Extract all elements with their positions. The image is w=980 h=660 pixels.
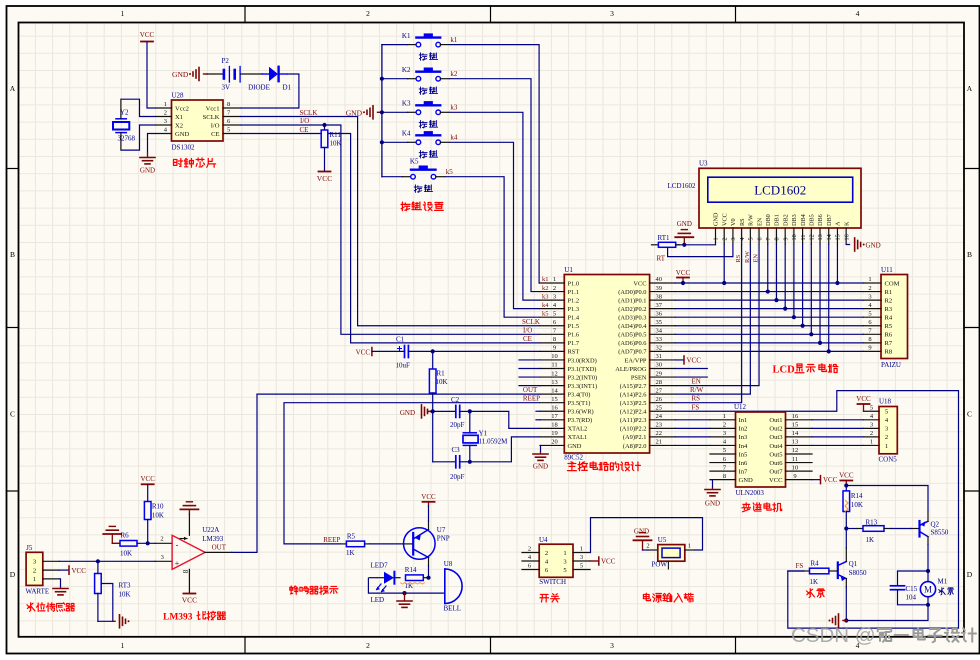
U18 pin 1 [863,444,879,446]
wire gnd vertical [432,411,434,461]
ground (U28 pin4) [148,134,156,153]
svg-text:VCC: VCC [721,213,728,226]
svg-text:(A11)P2.3: (A11)P2.3 [620,417,647,424]
svg-text:Q2: Q2 [931,521,940,529]
U3 pin 8 DB1 [775,228,777,244]
svg-text:24: 24 [656,413,663,420]
svg-text:J5: J5 [26,544,33,552]
svg-text:CE: CE [300,126,309,134]
U18 pin 5 [863,410,879,412]
svg-text:XTAL2: XTAL2 [568,426,588,433]
wire R14 to Q1 collector [845,529,847,549]
svg-text:U18: U18 [879,398,892,406]
svg-text:12: 12 [809,234,816,240]
svg-text:15: 15 [835,234,842,240]
svg-text:2: 2 [646,543,649,550]
svg-text:U11: U11 [881,266,893,274]
svg-text:I/O: I/O [523,327,532,335]
pushbutton K2 [382,78,408,80]
svg-text:10: 10 [791,234,798,240]
svg-text:4: 4 [739,237,746,240]
wire LM393 output [205,551,231,553]
svg-text:DB6: DB6 [817,214,824,226]
svg-text:13: 13 [551,379,558,386]
svg-text:A: A [10,84,16,93]
svg-text:EN: EN [756,217,763,226]
svg-text:P3.0(RXD): P3.0(RXD) [568,357,597,364]
svg-text:DB5: DB5 [809,214,816,226]
U1 pin 26 (right) [650,402,676,404]
U1 pin 39 (right) [650,291,676,293]
pushbutton K3 [382,111,408,113]
svg-text:SWITCH: SWITCH [539,578,566,586]
U4 pin row 6/5 [522,569,539,571]
wire XTAL1 [470,437,540,462]
svg-text:LM393: LM393 [163,613,193,623]
U3 pin 10 DB3 [793,228,795,244]
svg-text:VCC: VCC [140,31,155,39]
svg-text:35: 35 [656,319,663,326]
label 蜂鸣器提示 [290,586,299,594]
svg-text:R7: R7 [885,340,893,347]
U12 pin 7 In7 [710,470,736,472]
svg-text:S8550: S8550 [931,529,949,537]
svg-text:I/O: I/O [211,122,220,129]
svg-text:15: 15 [551,396,558,403]
svg-text:SCLK: SCLK [300,109,318,117]
svg-text:8: 8 [181,570,189,574]
U3 pin 7 DB0 [767,228,769,244]
U12 pin 6 In6 [710,462,736,464]
svg-text:30: 30 [656,362,663,369]
label 主控电路的设计 [567,462,576,471]
wire Y2 to X2 [120,133,122,151]
U1 pin 36 (right) [650,316,676,318]
svg-text:P1.1: P1.1 [568,289,580,296]
resistor R1 10K [432,351,434,369]
svg-text:40: 40 [656,276,663,283]
svg-text:DB1: DB1 [774,214,781,226]
svg-text:3: 3 [164,118,167,125]
svg-text:16: 16 [843,234,850,240]
svg-text:8: 8 [774,237,781,240]
svg-text:LM393: LM393 [202,535,224,543]
svg-text:3: 3 [723,430,726,437]
svg-text:(A13)P2.5: (A13)P2.5 [620,400,647,407]
net label VCC (U12 pin9) [812,479,820,481]
wire K3 to U1 [450,112,541,300]
U18 pin 3 [863,427,879,429]
svg-text:k3: k3 [542,293,549,300]
svg-text:DIODE: DIODE [248,84,270,92]
svg-text:LCD1602: LCD1602 [668,182,697,190]
svg-text:RT1: RT1 [658,234,671,242]
svg-text:LED: LED [371,596,385,604]
svg-text:P3.6(WR): P3.6(WR) [568,409,594,416]
net RS wire (P2.5 to LCD) [675,244,741,403]
svg-text:Out2: Out2 [769,426,782,433]
svg-text:In5: In5 [739,451,748,458]
svg-text:(AD5)P0.5: (AD5)P0.5 [618,332,646,339]
svg-text:3: 3 [868,293,871,300]
svg-text:20: 20 [551,439,558,446]
svg-text:R8: R8 [885,349,893,356]
LCD A pin15 vertical [836,244,838,283]
net R/W wire (P2.6 to LCD) [675,244,750,394]
U3 pin 3 V0 [732,228,734,244]
svg-text:3: 3 [870,422,873,429]
svg-text:10: 10 [551,353,558,360]
wire K5 to U1 [445,177,540,318]
label 按键 (K1) [419,53,427,60]
svg-text:P3.7(RD): P3.7(RD) [568,417,593,424]
svg-text:1: 1 [164,101,167,108]
U3 pin 4 RS [741,228,743,244]
svg-text:Out3: Out3 [769,434,783,441]
ground (LCD pin16 K) [846,243,850,246]
svg-text:(A10)P2.2: (A10)P2.2 [620,426,647,433]
svg-text:WARTE: WARTE [26,588,50,596]
U1 pin 10 (left) [540,359,564,361]
driver U12 ULN2003 [736,412,786,487]
svg-text:LCD: LCD [773,365,796,376]
U3 pin 1 GND [715,228,717,244]
svg-text:In2: In2 [739,426,748,433]
svg-text:38: 38 [656,293,663,300]
svg-text:A: A [835,221,842,226]
svg-text:RS: RS [735,254,742,262]
svg-text:2: 2 [160,536,163,543]
svg-text:32: 32 [656,345,663,352]
svg-text:VCC: VCC [676,269,691,277]
wire VCC to U28 pin1 [147,42,156,109]
svg-text:1K: 1K [346,549,355,557]
svg-text:VCC: VCC [182,596,197,605]
U1 pin 16 (left) [540,410,564,412]
svg-text:9: 9 [553,345,556,352]
resistor R11 10K pull-up [322,123,326,127]
svg-text:17: 17 [551,413,558,420]
svg-text:DB2: DB2 [782,214,789,226]
wires P2.3-P2.0 to ULN2003 [675,419,710,421]
svg-text:R11: R11 [330,131,342,139]
svg-text:27: 27 [656,387,663,394]
svg-text:1: 1 [563,550,566,557]
svg-text:ULN2003: ULN2003 [736,489,765,497]
svg-text:GND: GND [400,409,415,417]
svg-text:DS1302: DS1302 [172,144,195,152]
wires Out1-Out4 to CON5 [812,419,863,421]
svg-text:K2: K2 [402,66,411,74]
U1 pin 23 (right) [650,427,676,429]
svg-text:+: + [175,559,180,568]
resistor R13 1K [846,528,857,530]
svg-text:CON5: CON5 [879,456,898,464]
svg-text:XTAL1: XTAL1 [568,434,588,441]
pushbutton K1 [382,44,408,46]
svg-text:15: 15 [792,422,799,429]
svg-text:34: 34 [656,328,663,335]
U12 pin 8 GND [710,479,736,481]
U11 pin 2 [863,291,881,293]
capacitor C2 20pF [433,410,456,412]
wire J5 pin3 to LM393 [59,560,155,562]
U12 pin 3 In3 [710,436,736,438]
svg-text:1: 1 [33,576,36,583]
svg-text:R1: R1 [437,370,446,378]
svg-text:GND: GND [866,241,881,249]
label 按键设置 [401,202,410,211]
ground (buzzer) [404,593,406,600]
wire Q1 emitter to gnd node [845,587,847,621]
U3 pin 16 K [845,228,847,244]
svg-text:14: 14 [551,387,558,394]
svg-text:VCC: VCC [356,349,371,357]
svg-text:P1.0: P1.0 [568,280,580,287]
svg-text:C3: C3 [452,446,461,454]
svg-text:POW: POW [652,561,668,569]
svg-text:3: 3 [580,554,583,561]
U28 pin 4/5 row [156,133,172,135]
U28 pin 3/6 row [156,124,172,126]
svg-text:COM: COM [885,280,900,287]
U1 pin 18 (left) [540,427,564,429]
svg-text:SCLK: SCLK [522,318,540,326]
svg-text:In7: In7 [739,468,748,475]
svg-text:(AD7)P0.7: (AD7)P0.7 [618,349,647,356]
U3 pin 14 DB7 [828,228,830,244]
svg-text:P1.2: P1.2 [568,297,580,304]
resistor R14 1K (buzzer) [406,575,424,581]
svg-text:3: 3 [161,554,164,561]
buzzer U8 BELL [444,569,446,604]
svg-text:DB4: DB4 [800,214,807,226]
net label VCC (J5 pin2) [59,569,68,571]
svg-text:10K: 10K [152,512,164,520]
U3 pin 9 DB2 [784,228,786,244]
svg-text:R/W: R/W [744,250,751,263]
svg-text:B: B [967,250,972,259]
resistor R14 10K [845,486,847,491]
svg-text:VCC: VCC [140,475,155,483]
U1 pin 35 (right) [650,325,676,327]
stub ALE/PROG PSEN [675,368,707,370]
net FS wire (P2.4 to R4) [675,391,958,628]
svg-text:1K: 1K [866,536,875,544]
svg-text:PNP: PNP [437,535,450,543]
diode D1 [262,73,269,75]
svg-text:3V: 3V [222,84,231,92]
U3 pin 2 VCC [723,228,725,244]
label 电源输入端 [643,593,650,600]
svg-text:2: 2 [870,430,873,437]
svg-text:11: 11 [792,456,798,463]
svg-text:P2: P2 [222,57,230,65]
svg-text:VCC: VCC [839,472,854,480]
resistor R4 1K [788,570,804,572]
svg-text:GND: GND [346,108,363,117]
svg-text:8: 8 [553,336,556,343]
svg-text:9: 9 [868,345,871,352]
label 按键 (K4) [419,151,427,158]
svg-text:5: 5 [870,404,873,411]
svg-text:7: 7 [765,237,772,240]
svg-text:(A9)P2.1: (A9)P2.1 [623,434,647,441]
svg-text:2: 2 [545,550,548,557]
svg-text:16: 16 [792,413,799,420]
net label VCC (EA/VPP) [675,359,684,361]
svg-text:31: 31 [656,353,663,360]
svg-text:1: 1 [688,543,691,550]
svg-text:(AD3)P0.3: (AD3)P0.3 [618,315,646,322]
clock chip U28 DS1302 [172,100,224,141]
svg-text:6: 6 [756,237,763,240]
svg-text:C2: C2 [451,396,460,404]
battery P2 3V [223,70,226,79]
svg-text:k4: k4 [450,134,458,142]
U18 pin 4 [863,419,879,421]
svg-text:In4: In4 [739,443,748,450]
label 水位传感器 [27,603,35,612]
U1 pin 37 (right) [650,308,676,310]
U11 pin 8 [863,342,881,344]
svg-text:k3: k3 [450,104,458,112]
svg-text:P1.6: P1.6 [568,332,580,339]
svg-text:K5: K5 [410,158,419,166]
svg-text:8: 8 [868,336,871,343]
svg-text:10K: 10K [330,140,342,148]
svg-text:GND: GND [533,463,548,471]
svg-text:VCC: VCC [317,174,332,183]
J5 pin 3 [43,560,60,562]
svg-text:1: 1 [580,546,583,553]
svg-text:K: K [843,221,850,226]
svg-text:P1.7: P1.7 [568,340,580,347]
svg-text:EA/VPP: EA/VPP [624,357,646,364]
label 开关 [540,594,549,602]
U3 pin 11 DB4 [802,228,804,244]
svg-text:RS: RS [692,395,701,403]
svg-text:1: 1 [121,9,125,18]
wire motor to Q1 emitter node [846,605,928,621]
svg-text:11: 11 [551,362,557,369]
svg-text:R13: R13 [866,519,878,527]
svg-text:(AD2)P0.2: (AD2)P0.2 [618,306,646,313]
svg-text:Out7: Out7 [769,468,783,475]
svg-text:VCC: VCC [601,558,616,566]
svg-text:(AD1)P0.1: (AD1)P0.1 [618,297,646,304]
svg-text:GND: GND [172,70,189,79]
svg-text:10K: 10K [120,550,132,558]
svg-text:SCLK: SCLK [203,114,220,121]
MCU U1 89C52 [564,275,649,454]
svg-text:1: 1 [870,439,873,446]
resistor R5 1K [341,543,346,545]
ground (Q1 emitter) [838,614,840,627]
svg-text:U22A: U22A [202,526,219,534]
ground (RT3) [113,620,115,622]
label 步进电机 [742,503,751,512]
svg-text:26: 26 [656,396,663,403]
U1 pin 9 (left) [540,350,564,352]
svg-text:(AD6)P0.6: (AD6)P0.6 [618,340,646,347]
svg-text:1: 1 [553,276,556,283]
svg-text:RST: RST [568,349,580,356]
svg-text:GND: GND [634,528,649,536]
capacitor C15 104 [898,571,929,585]
U1 pin 2 (left) [540,291,564,293]
svg-text:k1: k1 [542,276,549,283]
svg-text:Out5: Out5 [769,451,783,458]
svg-text:13: 13 [792,439,799,446]
P0 bus wires to U11 [675,291,863,293]
U1 pin 21 (right) [650,444,676,446]
svg-text:PSEN: PSEN [631,374,647,381]
U4 pin row 4/3 [522,560,539,562]
U1 pin 25 (right) [650,410,676,412]
svg-text:10K: 10K [436,378,448,386]
svg-text:1: 1 [713,237,720,240]
U1 pin 20 (left) [540,444,564,446]
wire LED loop [368,578,444,593]
J5 pin 1 [43,578,60,580]
wire K1 to U1 [450,45,541,283]
svg-text:P3.1(TXD): P3.1(TXD) [568,366,597,373]
U11 pin 4 [863,308,881,310]
svg-text:U3: U3 [699,160,708,168]
svg-text:PAIZU: PAIZU [881,361,901,369]
svg-text:11: 11 [800,235,807,241]
wire diode to U28 pin8 [240,74,299,108]
svg-text:GND: GND [677,220,692,228]
transistor Q2 S8550 PNP [912,528,920,530]
watermark 冠一电子设计 [878,629,892,642]
svg-text:1: 1 [885,443,888,450]
U11 pin 3 [863,299,881,301]
svg-text:R6: R6 [885,332,893,339]
svg-text:29: 29 [656,370,663,377]
LCD module U3 LCD1602 [699,168,861,228]
svg-text:Q1: Q1 [849,560,858,568]
wire R5 to U7 base [370,543,405,545]
potentiometer RT1 [652,244,659,246]
svg-text:U5: U5 [658,536,667,544]
orange marker squiggle (R14) [845,500,848,512]
pushbutton K4 [382,141,408,143]
svg-text:R1: R1 [885,289,893,296]
svg-text:k1: k1 [450,36,458,44]
svg-text:U1: U1 [564,266,573,274]
U1 pin 8 (left) [540,342,564,344]
svg-text:CE: CE [523,335,532,343]
svg-text:(A12)P2.4: (A12)P2.4 [620,409,648,416]
svg-text:S8050: S8050 [849,569,867,577]
U1 pin 30 (right) [650,368,676,370]
U12 pin 1 In1 [710,419,736,421]
svg-text:Out6: Out6 [769,460,783,467]
pushbutton K5 [382,176,402,178]
wire U7 collector [428,566,430,578]
svg-text:GND: GND [140,167,155,175]
svg-text:R4: R4 [885,315,893,322]
svg-text:-: - [176,540,179,549]
svg-text:k2: k2 [542,285,549,292]
wire VCC to Q2 emitter [846,486,928,513]
svg-text:VCC: VCC [421,493,436,501]
svg-text:U7: U7 [437,526,446,534]
svg-text:R4: R4 [811,560,820,568]
svg-text:5: 5 [227,127,230,134]
